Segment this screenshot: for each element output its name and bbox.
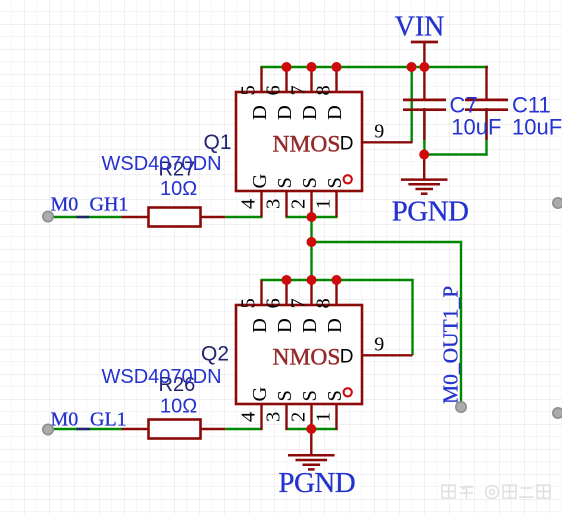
power symbol VIN stem [423, 42, 425, 68]
pin 6 lead Q2 [285, 280, 287, 305]
svg-text:GL1: GL1 [90, 409, 127, 431]
svg-text:G: G [249, 387, 271, 402]
wire VIN top rail [260, 66, 488, 68]
svg-text:5: 5 [237, 85, 259, 95]
svg-text:GH1: GH1 [90, 194, 129, 216]
pin 9 lead Q2 [362, 354, 413, 356]
ground PGND symbol (capacitors) [401, 155, 448, 194]
svg-text:VIN: VIN [395, 12, 445, 43]
svg-text:4: 4 [238, 199, 260, 209]
svg-text:M0: M0 [51, 194, 79, 216]
pin 9 lead Q1 [362, 141, 413, 143]
junction dot VIN rail C7 [419, 62, 429, 72]
svg-text:D: D [274, 105, 296, 120]
svg-text:6: 6 [262, 298, 284, 308]
wire R26 to Q2 pin4 [225, 428, 262, 430]
svg-text:S: S [274, 390, 296, 401]
svg-text:2: 2 [288, 199, 310, 209]
pin 7 lead Q2 [310, 280, 312, 305]
pin 8 lead Q2 [335, 280, 337, 305]
pin 2 lead Q2 [310, 404, 312, 430]
wire node M0_OUT1_P horizontal [310, 241, 462, 243]
svg-text:WSD4070DN: WSD4070DN [102, 153, 222, 175]
wire M0_GL1 pad to R26 [48, 428, 122, 430]
svg-text:Q1: Q1 [204, 131, 232, 154]
wire Q1 source down to Q2 drain rail [310, 216, 312, 281]
svg-text:2: 2 [288, 412, 310, 422]
svg-text:3: 3 [263, 412, 285, 422]
svg-text:D: D [340, 346, 354, 367]
pin 1 lead Q2 [335, 404, 337, 430]
svg-text:10uF: 10uF [451, 114, 501, 139]
wire Q2 pin9 up to drain rail [411, 279, 413, 355]
pad M0_GL1 [43, 424, 53, 434]
junction dot Q2 rail pin8 [332, 275, 342, 285]
wire C11 bottom lead [485, 108, 487, 156]
junction dot M0_OUT1_P node [307, 237, 317, 247]
resistor R26 [122, 420, 226, 439]
svg-text:M0: M0 [51, 409, 79, 431]
net label M0_GH1 underscore [77, 216, 90, 218]
svg-text:D: D [249, 318, 271, 333]
wire Q2 drain rail [260, 279, 413, 281]
pad right upper [553, 198, 562, 208]
resistor R27 [122, 208, 226, 227]
net label M0_GL1 underscore [77, 428, 91, 430]
svg-text:D: D [340, 133, 354, 154]
pin 3 lead Q2 [285, 404, 287, 430]
svg-text:D: D [324, 105, 346, 120]
wire C7 bottom to PGND node [423, 108, 425, 156]
transistor Q2 body [236, 305, 362, 404]
svg-text:7: 7 [287, 298, 309, 308]
svg-text:S: S [299, 177, 321, 188]
svg-text:D: D [274, 318, 296, 333]
pin 1 indicator ring Q1 [344, 175, 352, 183]
svg-text:PGND: PGND [278, 467, 355, 499]
pin 4 lead Q1 [260, 191, 262, 217]
svg-text:D: D [249, 105, 271, 120]
svg-text:1: 1 [313, 199, 335, 209]
pin 3 lead Q1 [285, 191, 287, 217]
pin 8 lead Q1 [335, 67, 337, 92]
junction dot PGND node C7 [419, 150, 429, 160]
svg-text:4: 4 [238, 412, 260, 422]
svg-text:10Ω: 10Ω [160, 178, 197, 200]
svg-text:D: D [299, 318, 321, 333]
svg-text:Q2: Q2 [201, 342, 229, 365]
svg-text:M0_OUT1_P: M0_OUT1_P [439, 286, 463, 404]
svg-text:G: G [249, 174, 271, 189]
pin 1 lead Q1 [335, 191, 337, 217]
wire Q1 S pins tie [285, 216, 337, 218]
wire M0_GH1 pad to R27 [48, 216, 122, 218]
junction dot Q2 source tie [306, 424, 316, 434]
svg-text:8: 8 [312, 85, 334, 95]
wire M0_OUT1_P down to pad [460, 241, 462, 407]
svg-text:8: 8 [312, 298, 334, 308]
capacitor C7 [403, 65, 446, 140]
svg-text:PGND: PGND [392, 196, 469, 228]
wire C7-C11 bottom tie [423, 153, 487, 155]
junction dot Q1 source tie [307, 212, 317, 222]
junction dot Q2 rail pin6 [282, 275, 292, 285]
watermark zhihu [442, 485, 550, 499]
pad M0_GH1 [43, 211, 53, 221]
svg-text:5: 5 [237, 298, 259, 308]
wire R27 to Q1 pin4 [225, 216, 262, 218]
pin 5 lead Q1 [260, 67, 262, 92]
svg-text:NMOS: NMOS [273, 132, 341, 158]
pin 6 lead Q1 [285, 67, 287, 92]
pin 1 indicator ring Q2 [344, 388, 352, 396]
ground PGND symbol (Q2 source) [288, 429, 335, 469]
pin 2 lead Q1 [310, 191, 312, 217]
junction dot VIN rail pin9 branch [407, 62, 417, 72]
wire Q2 S pins tie [285, 428, 337, 430]
svg-text:S: S [274, 177, 296, 188]
pin 5 lead Q2 [260, 280, 262, 305]
pad M0_OUT1_P [456, 402, 466, 412]
pin 4 lead Q2 [260, 404, 262, 430]
svg-text:10Ω: 10Ω [160, 396, 197, 418]
junction dot VIN rail pin6 [282, 62, 292, 72]
svg-text:10uF: 10uF [512, 114, 562, 139]
svg-text:6: 6 [262, 85, 284, 95]
svg-text:S: S [299, 390, 321, 401]
svg-text:1: 1 [313, 412, 335, 422]
svg-text:7: 7 [287, 85, 309, 95]
junction dot Q2 rail pin7 [307, 275, 317, 285]
wire Q1 pin9 up to VIN rail [411, 66, 413, 142]
svg-text:3: 3 [263, 199, 285, 209]
pad right lower [553, 408, 562, 418]
svg-text:9: 9 [374, 121, 384, 143]
svg-text:9: 9 [374, 334, 384, 356]
power symbol VIN bar [411, 41, 438, 44]
transistor Q1 body [236, 92, 362, 191]
svg-text:NMOS: NMOS [273, 345, 341, 371]
junction dot VIN rail pin7 [307, 62, 317, 72]
svg-text:WSD4070DN: WSD4070DN [102, 366, 222, 388]
capacitor C11 [465, 66, 508, 140]
junction dot VIN rail pin8 [332, 62, 342, 72]
svg-text:D: D [299, 105, 321, 120]
pin 7 lead Q1 [310, 67, 312, 92]
svg-text:D: D [324, 318, 346, 333]
